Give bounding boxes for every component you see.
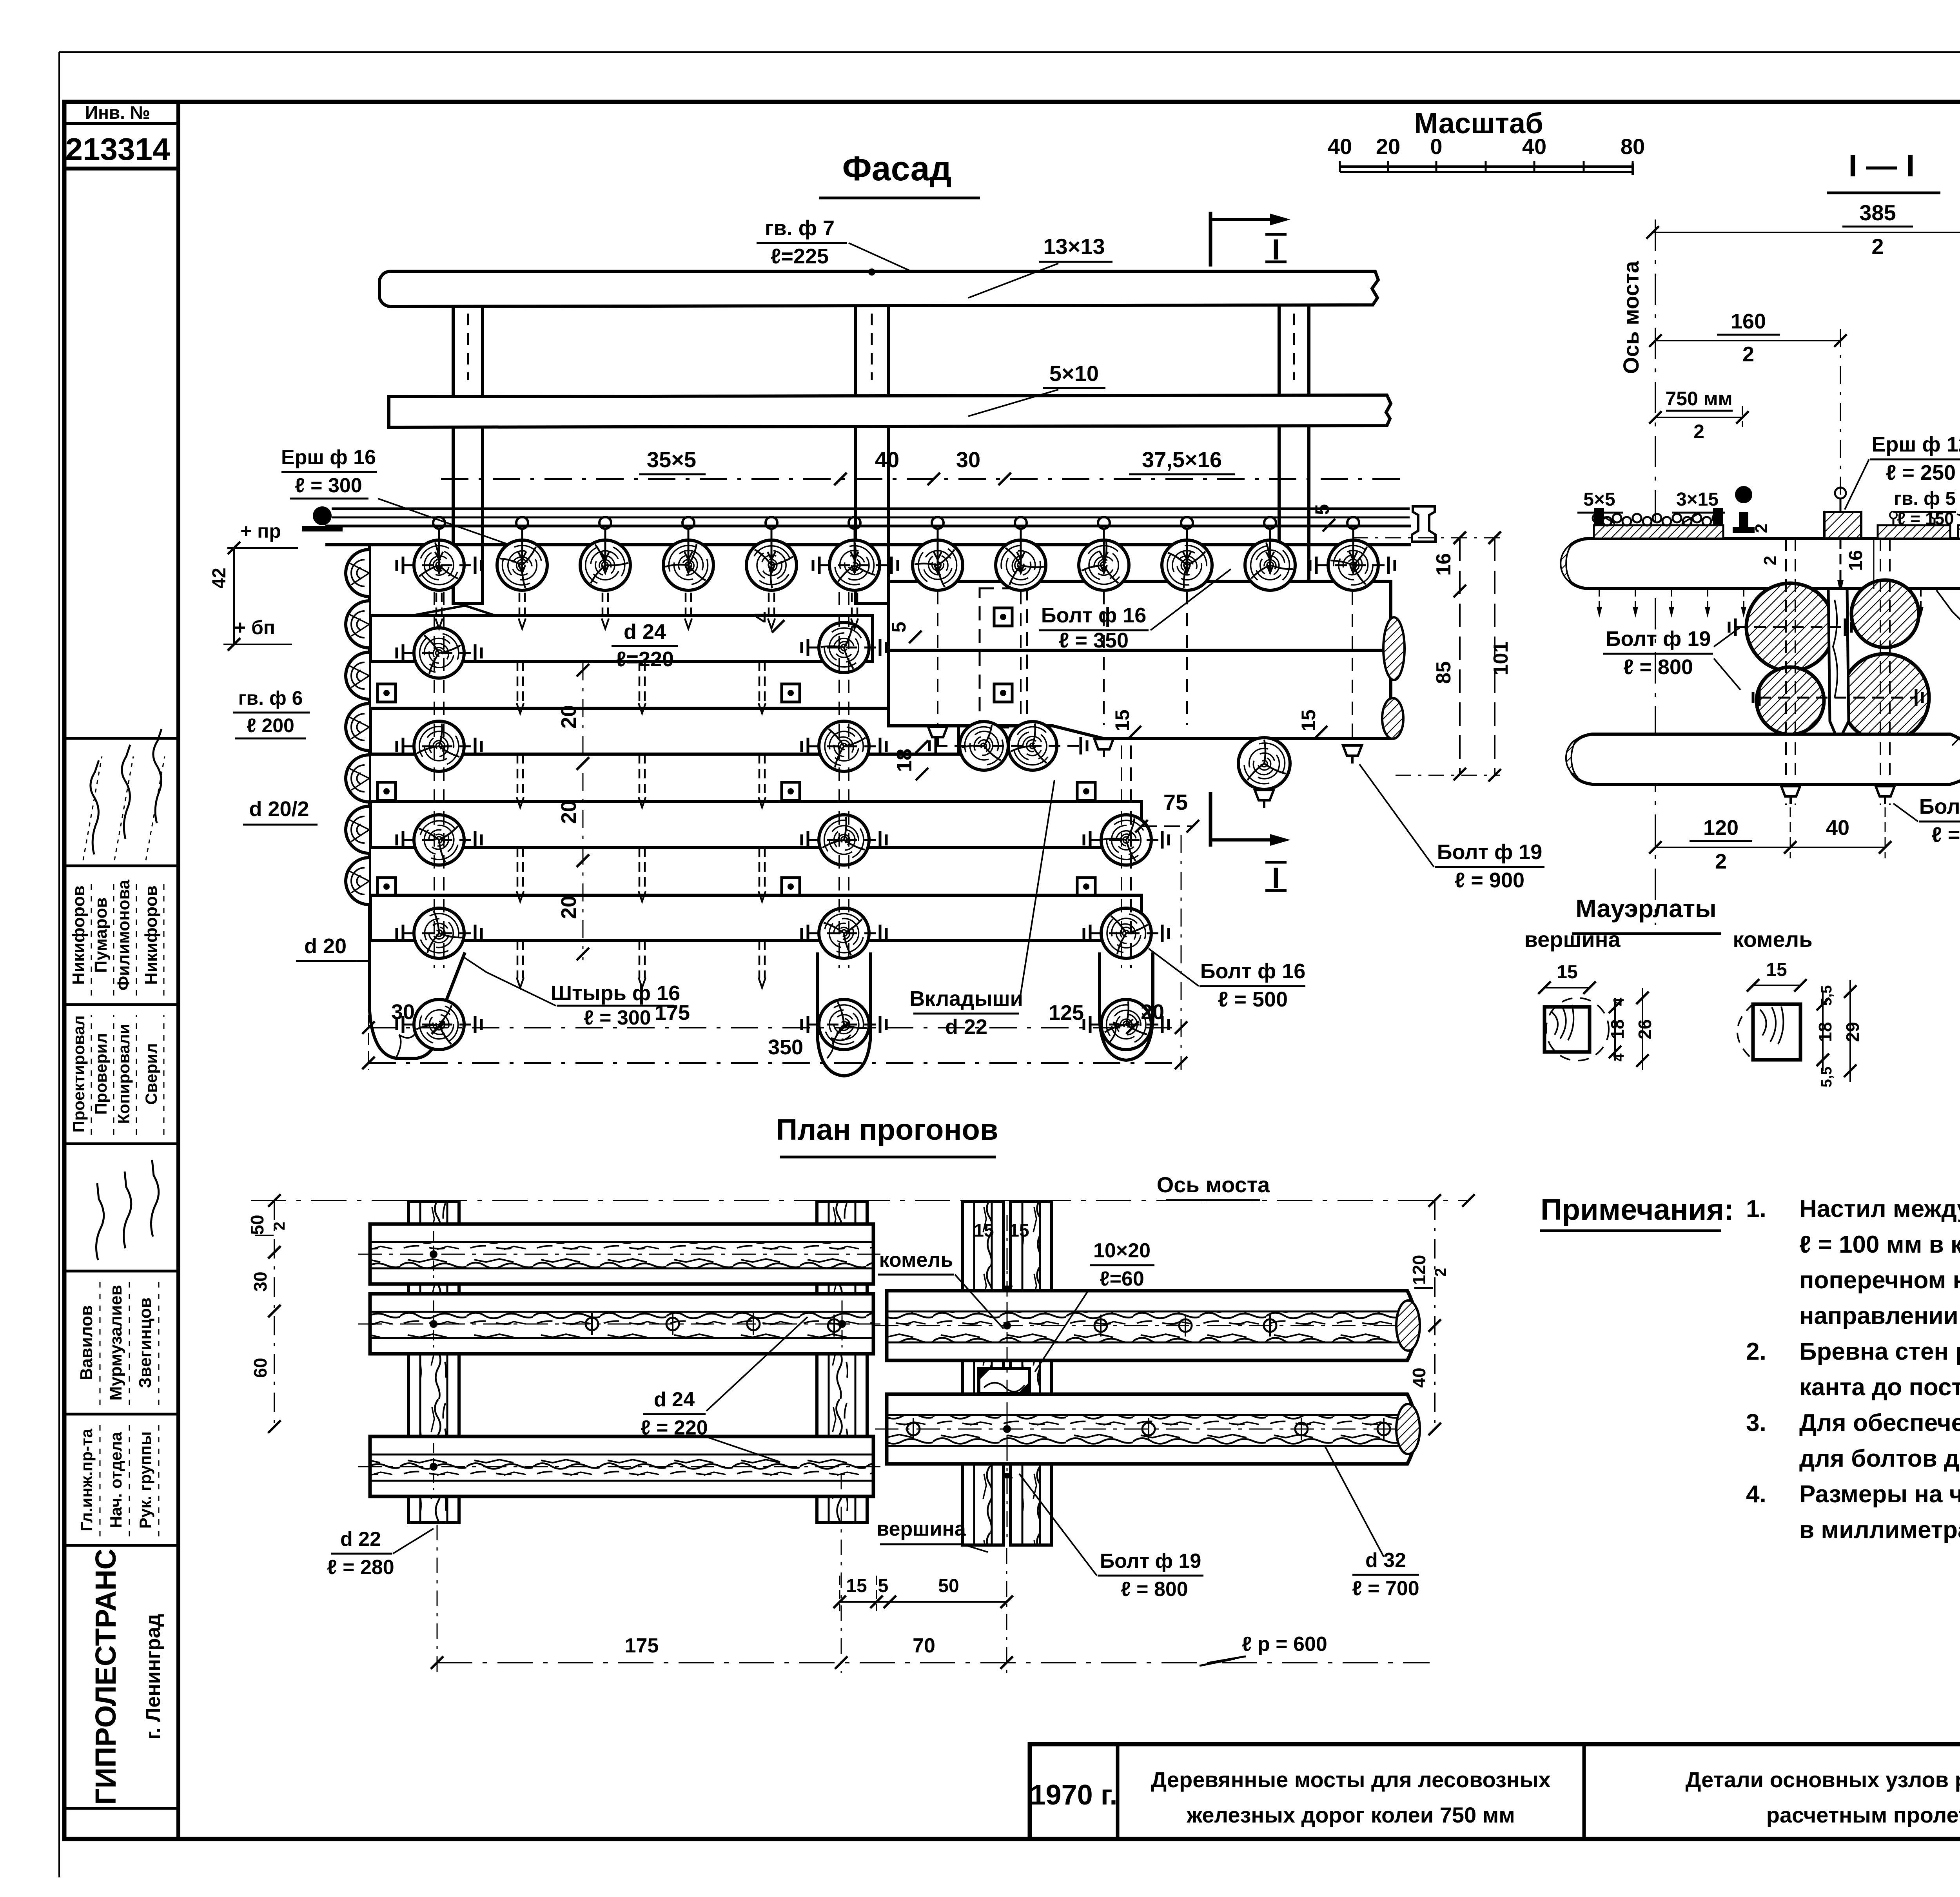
svg-text:18: 18: [1607, 1019, 1628, 1039]
svg-text:15: 15: [1557, 962, 1577, 983]
svg-text:I — I: I — I: [1849, 148, 1915, 183]
svg-text:Ерш ф 16: Ерш ф 16: [281, 446, 376, 469]
svg-text:ℓ = 350: ℓ = 350: [1059, 629, 1129, 652]
svg-text:20: 20: [557, 800, 581, 824]
svg-text:Настил между рельсами крепи: Настил между рельсами крепится к попереч…: [1799, 1195, 1960, 1222]
svg-text:2: 2: [1432, 1268, 1449, 1277]
svg-text:16: 16: [1846, 550, 1866, 571]
svg-text:15: 15: [1111, 709, 1133, 731]
svg-text:ℓ = 700: ℓ = 700: [1352, 1577, 1419, 1600]
svg-text:2: 2: [271, 1222, 288, 1230]
svg-text:ℓ 200: ℓ 200: [247, 715, 294, 736]
girder logs cluster (4 hatched): [1746, 583, 1834, 671]
мауэрлат комель: [1753, 1004, 1800, 1060]
svg-text:ℓ = 220: ℓ = 220: [641, 1416, 708, 1439]
spikes between courses: [517, 662, 519, 704]
svg-text:Гл.инж.пр-та: Гл.инж.пр-та: [77, 1429, 96, 1531]
dim 120/2 40 bottom: [1655, 847, 1885, 848]
svg-text:г. Ленинград: г. Ленинград: [142, 1614, 165, 1740]
svg-text:Детали основных узлов ряжевых: Детали основных узлов ряжевых мостов: [1686, 1767, 1960, 1792]
svg-text:ℓ = 280: ℓ = 280: [327, 1556, 394, 1579]
svg-text:гв. ф 6: гв. ф 6: [238, 687, 303, 709]
svg-text:Болт ф 19: Болт ф 19: [1437, 840, 1543, 864]
deck strips right of ерш: [1878, 525, 1950, 539]
svg-text:Никифоров: Никифоров: [69, 885, 88, 985]
svg-text:26: 26: [1635, 1019, 1655, 1039]
deck dimension line 35x5 / 40 / 30 / 37.5x16: [441, 478, 1407, 480]
svg-text:вершина: вершина: [1524, 927, 1621, 952]
svg-text:+ бп: + бп: [234, 617, 275, 638]
transverse wall log columns: [414, 628, 464, 678]
svg-text:Рук. группы: Рук. группы: [136, 1431, 154, 1529]
svg-text:ℓ=60: ℓ=60: [1100, 1268, 1144, 1290]
svg-text:15: 15: [974, 1220, 994, 1240]
svg-text:18: 18: [1815, 1022, 1835, 1042]
svg-text:ℓ = 150: ℓ = 150: [1897, 509, 1954, 528]
svg-text:2: 2: [1760, 556, 1780, 565]
section mark I (bottom): [1209, 792, 1212, 847]
top handrail 13x13: [379, 271, 1378, 306]
svg-text:37,5×16: 37,5×16: [1142, 447, 1222, 472]
svg-text:Нач. отдела: Нач. отдела: [107, 1432, 125, 1528]
svg-text:поперечном направлении и че: поперечном направлении и через одну попе…: [1799, 1267, 1960, 1294]
svg-text:30: 30: [250, 1271, 270, 1291]
ерш block: [1824, 512, 1861, 539]
svg-text:Фасад: Фасад: [842, 149, 952, 188]
svg-text:15: 15: [1298, 709, 1319, 731]
сжим dashed rect: [980, 588, 1027, 727]
svg-text:213314: 213314: [65, 132, 170, 167]
cap beam log ends right: [1383, 617, 1405, 680]
svg-text:d 20/2: d 20/2: [249, 797, 309, 821]
svg-text:40: 40: [1522, 134, 1546, 159]
rail wheel symbol left: [313, 506, 332, 525]
dim 385/2: [1653, 232, 1960, 233]
svg-text:20: 20: [557, 705, 581, 729]
центральные bolt symbols in plan ties: [1002, 1286, 1013, 1291]
svg-text:Мауэрлаты: Мауэрлаты: [1575, 894, 1717, 923]
svg-text:ℓ = 250: ℓ = 250: [1886, 461, 1956, 484]
inventory number box: [64, 122, 178, 125]
svg-text:16: 16: [1432, 553, 1455, 576]
svg-text:5×10: 5×10: [1049, 361, 1099, 386]
plan cross ties: [408, 1201, 459, 1523]
crib left wall edge with log ends: [368, 545, 371, 1007]
svg-text:Для обеспечения свободной о: Для обеспечения свободной осадки венцов,…: [1799, 1409, 1960, 1436]
big crossbeam log right: [1238, 738, 1290, 789]
svg-text:ℓ = 100 мм в количестве одн: ℓ = 100 мм в количестве одного гвоздя в …: [1799, 1231, 1960, 1258]
course height dim 20x3: [577, 664, 589, 676]
svg-text:гв. ф 5: гв. ф 5: [1894, 488, 1956, 509]
svg-text:50: 50: [938, 1576, 959, 1596]
svg-text:20: 20: [557, 896, 581, 919]
svg-text:30: 30: [956, 447, 980, 472]
svg-text:расчетным пролетам 6,0 м: расчетным пролетам 6,0 м: [1766, 1803, 1960, 1827]
svg-text:2: 2: [1693, 421, 1704, 443]
svg-text:30: 30: [391, 1000, 415, 1024]
rail profile symbol right: [1412, 506, 1436, 542]
dim 160/2: [1655, 340, 1840, 341]
svg-text:Болт ф 19: Болт ф 19: [1606, 627, 1711, 651]
svg-text:Болт ф 16: Болт ф 16: [1200, 959, 1306, 983]
svg-text:Ось моста: Ось моста: [1157, 1172, 1270, 1197]
deck: rail and planks (horizontal lines): [332, 508, 1410, 510]
svg-text:ℓ = 500: ℓ = 500: [1218, 988, 1288, 1011]
upper cap beam: [888, 581, 1391, 650]
svg-text:101: 101: [1490, 642, 1512, 676]
svg-text:40: 40: [875, 447, 899, 472]
wedge between girders: [1828, 589, 1849, 742]
svg-text:ℓ = 900: ℓ = 900: [1455, 869, 1524, 892]
handrail posts: [453, 302, 483, 604]
svg-text:20: 20: [1141, 1000, 1164, 1024]
svg-text:80: 80: [1621, 134, 1645, 159]
crib left foot log: [369, 952, 465, 1058]
svg-text:Проектировал: Проектировал: [69, 1016, 88, 1133]
vertical bolt dashed pairs through walls: [434, 592, 435, 968]
crib middle/right wall legs: [817, 952, 871, 1076]
svg-text:1.: 1.: [1746, 1195, 1766, 1222]
вкладыши double log: [960, 722, 1008, 770]
svg-text:42: 42: [209, 568, 230, 588]
ось моста axis: [1655, 219, 1656, 925]
stamp signatures (top): [91, 760, 99, 854]
svg-text:+ пр: + пр: [240, 520, 281, 542]
posts redraw over rails: [452, 306, 455, 395]
bottom beam (section): [1568, 734, 1960, 784]
svg-text:175: 175: [625, 1634, 659, 1657]
svg-text:120: 120: [1703, 816, 1739, 840]
svg-text:1970 г.: 1970 г.: [1030, 1779, 1118, 1811]
vertical dim 16/85/101 right: [1459, 538, 1461, 775]
svg-text:направлении.: направлении.: [1799, 1302, 1960, 1329]
svg-text:2: 2: [1752, 524, 1771, 533]
bolts in plan (dots and circles): [430, 1250, 437, 1258]
lower cap beam: [888, 650, 1391, 738]
svg-text:План прогонов: План прогонов: [776, 1113, 998, 1146]
facade bottom dim chain: [368, 1027, 1181, 1028]
svg-text:Ось моста: Ось моста: [1619, 261, 1643, 374]
svg-text:2: 2: [1871, 234, 1884, 259]
svg-text:4: 4: [751, 612, 773, 623]
svg-text:Никифоров: Никифоров: [142, 885, 161, 985]
svg-text:Ерш ф 12: Ерш ф 12: [1871, 433, 1960, 456]
svg-text:Инв. №: Инв. №: [85, 102, 150, 123]
svg-text:d 20: d 20: [304, 934, 347, 958]
svg-text:ℓ=225: ℓ=225: [771, 245, 829, 268]
svg-text:750 мм: 750 мм: [1665, 388, 1732, 410]
title block: [1030, 1744, 1960, 1839]
svg-text:350: 350: [768, 1036, 803, 1059]
svg-text:Размеры на чертеже указаны: Размеры на чертеже указаны в сантиметрах…: [1799, 1481, 1960, 1508]
svg-text:Бревна стен ряжей обрабатыв: Бревна стен ряжей обрабатываются по всей…: [1799, 1338, 1960, 1365]
section mark I (top): [1209, 212, 1212, 267]
svg-text:5×5: 5×5: [1583, 489, 1615, 510]
horizontal bolts at deck row: [403, 564, 475, 566]
svg-text:4: 4: [1611, 997, 1627, 1006]
svg-text:Мурмузалиев: Мурмузалиев: [106, 1285, 125, 1401]
svg-text:Филимонова: Филимонова: [114, 880, 133, 990]
svg-text:4: 4: [1611, 1053, 1627, 1061]
svg-text:ℓ = 300: ℓ = 300: [295, 474, 362, 497]
svg-text:5,5: 5,5: [1818, 985, 1835, 1006]
svg-text:40: 40: [1328, 134, 1352, 159]
svg-text:d 24: d 24: [654, 1388, 695, 1411]
svg-text:5: 5: [878, 1576, 889, 1596]
svg-text:75: 75: [1163, 790, 1188, 814]
svg-text:ℓ р = 600: ℓ р = 600: [1242, 1633, 1327, 1656]
plan girder bars right group (with log ends): [887, 1291, 1416, 1360]
svg-text:2: 2: [1742, 343, 1754, 366]
svg-text:5: 5: [888, 622, 910, 633]
svg-text:Сверил: Сверил: [142, 1043, 160, 1104]
svg-text:20: 20: [1376, 134, 1400, 159]
svg-text:70: 70: [913, 1634, 935, 1657]
svg-text:в миллиметрах.: в миллиметрах.: [1799, 1516, 1960, 1543]
svg-text:29: 29: [1842, 1022, 1863, 1042]
svg-text:3.: 3.: [1746, 1409, 1766, 1436]
вкладыш spacer 10x20: [979, 1369, 1029, 1394]
svg-text:4.: 4.: [1746, 1481, 1766, 1508]
svg-text:канта до постоянной высоты: канта до постоянной высоты 20 см .: [1799, 1374, 1960, 1401]
svg-text:d 24: d 24: [624, 620, 666, 644]
svg-text:125: 125: [1049, 1001, 1084, 1025]
svg-text:35×5: 35×5: [647, 447, 696, 472]
bolts through cap beams: [937, 591, 938, 725]
svg-text:2.: 2.: [1746, 1338, 1766, 1365]
svg-text:40: 40: [1409, 1367, 1429, 1387]
svg-text:Вкладыши: Вкладыши: [909, 987, 1023, 1010]
plan bottom dim chains: [840, 1601, 1007, 1603]
svg-text:13×13: 13×13: [1043, 234, 1105, 259]
svg-text:175: 175: [655, 1001, 690, 1025]
svg-text:50: 50: [247, 1215, 267, 1235]
crib course bars: [370, 615, 873, 662]
left stamp column divider: [176, 102, 180, 1839]
plan girder bars left group: [370, 1224, 873, 1284]
svg-text:Звегинцов: Звегинцов: [136, 1297, 155, 1388]
svg-text:ГИПРОЛЕСТРАНС: ГИПРОЛЕСТРАНС: [89, 1549, 122, 1805]
mid rail 5x10: [389, 395, 1391, 427]
ось моста axis (plan): [251, 1200, 1470, 1201]
svg-text:18: 18: [893, 749, 916, 772]
svg-text:ℓ = 300: ℓ = 300: [584, 1007, 651, 1029]
sheet outer thin border: [59, 51, 1960, 53]
svg-text:Болт ф 19: Болт ф 19: [1919, 795, 1960, 818]
svg-text:Пумаров: Пумаров: [91, 898, 111, 973]
svg-text:Деревянные мосты для лесовозны: Деревянные мосты для лесовозных: [1151, 1767, 1550, 1792]
svg-text:10×20: 10×20: [1093, 1239, 1151, 1262]
svg-text:60: 60: [250, 1358, 270, 1378]
svg-text:15: 15: [1766, 959, 1787, 980]
plan left dim chain: [274, 1201, 275, 1427]
bar1 left chamfer: [413, 606, 495, 615]
rail symbol on beam: [1735, 486, 1752, 503]
svg-text:120: 120: [1409, 1255, 1429, 1285]
svg-text:для болтов делаются овальны: для болтов делаются овальными.: [1799, 1445, 1960, 1472]
svg-text:160: 160: [1731, 310, 1766, 333]
svg-text:40: 40: [1826, 816, 1849, 840]
svg-text:ℓ = 800: ℓ = 800: [1121, 1578, 1188, 1601]
svg-text:385: 385: [1859, 200, 1896, 225]
svg-text:Примечания:: Примечания:: [1541, 1193, 1734, 1226]
deck elements on cap beam: gravel 5x5 3x15: [1594, 525, 1723, 539]
svg-text:гв. ф 7: гв. ф 7: [765, 216, 835, 240]
svg-text:ℓ = 1100: ℓ = 1100: [1931, 823, 1960, 847]
svg-text:комель: комель: [879, 1249, 953, 1271]
svg-text:d 22: d 22: [340, 1528, 381, 1551]
svg-text:Копировали: Копировали: [114, 1024, 133, 1124]
svg-text:15: 15: [1009, 1220, 1029, 1240]
horizontal bolts in cluster: [1735, 626, 1845, 628]
svg-text:5,5: 5,5: [1818, 1067, 1835, 1088]
svg-text:15: 15: [846, 1576, 867, 1596]
bolts through cluster: [1785, 539, 1787, 805]
cap beam (section): [1563, 539, 1960, 589]
nut squares on crib: [377, 684, 396, 702]
svg-text:0: 0: [1430, 134, 1442, 159]
dim 750mm/2: [1655, 417, 1742, 418]
svg-text:железных дорог колеи 750 мм: железных дорог колеи 750 мм: [1186, 1803, 1515, 1827]
stamp signatures (middle): [96, 1183, 104, 1260]
svg-text:3×15: 3×15: [1676, 489, 1719, 510]
svg-text:Вавилов: Вавилов: [77, 1305, 96, 1380]
svg-text:d 32: d 32: [1365, 1549, 1406, 1572]
svg-text:85: 85: [1432, 661, 1455, 684]
central double tie: [962, 1201, 1004, 1545]
plan right dim chain: [1434, 1201, 1436, 1431]
crossbeam log row (поперечины): [414, 540, 464, 590]
svg-text:Болт ф 19: Болт ф 19: [1100, 1550, 1201, 1572]
мауэрлат вершина: [1544, 1007, 1590, 1052]
svg-text:Болт ф 16: Болт ф 16: [1041, 604, 1147, 627]
svg-text:вершина: вершина: [877, 1518, 966, 1540]
svg-text:комель: комель: [1733, 927, 1812, 952]
stamp column section dividers: [64, 737, 178, 740]
svg-text:ℓ = 800: ℓ = 800: [1623, 655, 1693, 679]
svg-text:Проверил: Проверил: [92, 1033, 110, 1115]
svg-text:5: 5: [1311, 504, 1333, 515]
spikes under beam left: [1599, 589, 1600, 611]
svg-text:2: 2: [1715, 850, 1727, 873]
